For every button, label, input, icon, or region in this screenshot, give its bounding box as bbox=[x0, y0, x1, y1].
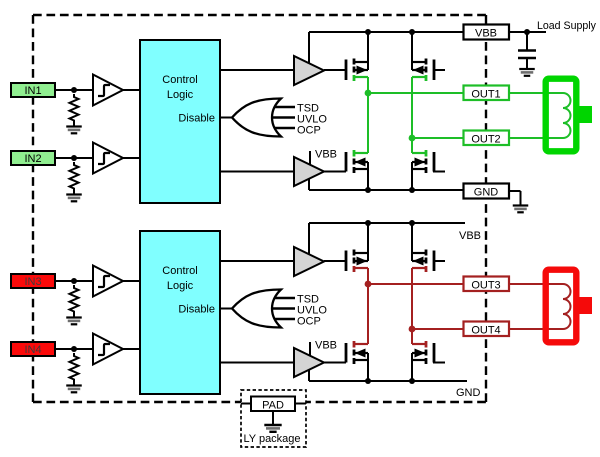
svg-text:IN2: IN2 bbox=[24, 153, 41, 165]
svg-text:IN3: IN3 bbox=[24, 276, 41, 288]
svg-text:OUT1: OUT1 bbox=[471, 89, 500, 101]
svg-text:OCP: OCP bbox=[297, 316, 321, 328]
svg-text:IN4: IN4 bbox=[24, 344, 41, 356]
svg-text:VBB: VBB bbox=[475, 28, 497, 40]
svg-text:Logic: Logic bbox=[167, 89, 194, 101]
svg-text:LY package: LY package bbox=[243, 433, 300, 445]
svg-text:OCP: OCP bbox=[297, 125, 321, 137]
svg-text:VBB: VBB bbox=[459, 230, 481, 242]
svg-text:OUT2: OUT2 bbox=[471, 134, 500, 146]
svg-text:GND: GND bbox=[456, 387, 481, 399]
svg-text:Control: Control bbox=[162, 74, 197, 86]
svg-text:IN1: IN1 bbox=[24, 85, 41, 97]
svg-text:OUT4: OUT4 bbox=[471, 325, 500, 337]
svg-text:OUT3: OUT3 bbox=[471, 280, 500, 292]
svg-text:Control: Control bbox=[162, 265, 197, 277]
svg-text:Load Supply: Load Supply bbox=[537, 20, 597, 32]
svg-text:Disable: Disable bbox=[178, 304, 215, 316]
svg-text:VBB: VBB bbox=[315, 149, 337, 161]
svg-text:Logic: Logic bbox=[167, 280, 194, 292]
svg-text:PAD: PAD bbox=[262, 400, 284, 412]
svg-text:VBB: VBB bbox=[315, 340, 337, 352]
svg-text:GND: GND bbox=[474, 187, 499, 199]
svg-text:Disable: Disable bbox=[178, 113, 215, 125]
